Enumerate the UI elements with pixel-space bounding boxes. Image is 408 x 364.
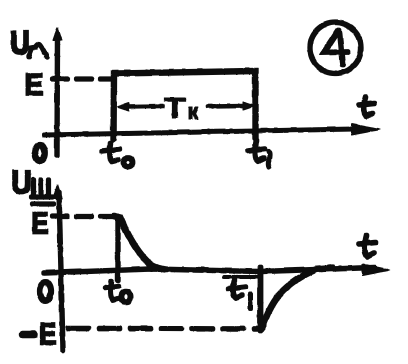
- X axis (top graph): [44, 129, 354, 135]
- Y axis arrowhead (bottom graph): [53, 184, 62, 198]
- svg-text:U: U: [10, 25, 29, 61]
- Tk measure arrow left: [125, 104, 162, 108]
- Y axis (bottom graph): [59, 192, 63, 350]
- X axis (bottom graph): [44, 267, 374, 273]
- 0 label (top graph origin): [35, 145, 45, 161]
- t1 tick label (top graph): [248, 140, 265, 161]
- doubled ink stroke under axis near t1: [224, 275, 258, 278]
- Tk measure arrow right: [208, 104, 245, 108]
- dashed E level line (top graph): [52, 76, 113, 80]
- 0 label (bottom graph origin): [39, 282, 50, 301]
- t0 tick label (top graph): [102, 143, 120, 161]
- X axis arrowhead (bottom graph): [362, 264, 390, 276]
- output exponential decay after t0: [114, 216, 167, 270]
- output spike rise at t0: [115, 217, 119, 281]
- node Uvyh subscript: [31, 180, 53, 204]
- X axis arrowhead (top graph): [351, 124, 380, 135]
- t label (top graph): [359, 97, 374, 116]
- output exponential recovery after t1: [261, 268, 332, 329]
- svg-text:E: E: [39, 316, 56, 351]
- t0 tick label (bottom graph): [105, 281, 119, 300]
- figure number circle 4: [310, 22, 361, 73]
- t1 tick label (bottom graph): [228, 280, 245, 298]
- Y axis arrowhead (top graph): [53, 27, 62, 40]
- t label (bottom graph): [359, 235, 375, 256]
- svg-text:E: E: [24, 67, 43, 102]
- node Uvx subscript: [29, 44, 47, 56]
- minus E label: [23, 331, 34, 337]
- svg-text:к: к: [187, 99, 199, 124]
- Y axis (top graph): [54, 34, 59, 155]
- svg-text:U: U: [11, 164, 31, 200]
- output drop at t1: [258, 267, 263, 330]
- svg-text:E: E: [31, 205, 48, 240]
- dashed -E level line: [68, 326, 262, 331]
- svg-text:T: T: [164, 93, 186, 125]
- pulse waveform (top graph): [113, 71, 255, 140]
- dashed E level line (bottom graph): [52, 214, 112, 218]
